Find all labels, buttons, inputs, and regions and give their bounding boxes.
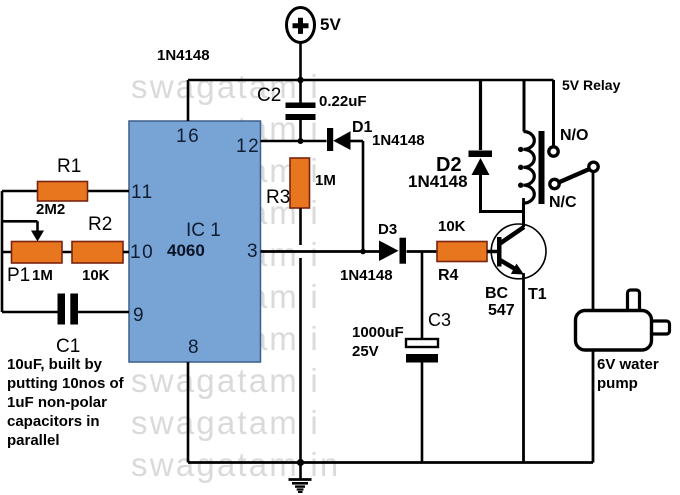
svg-text:swagatam i: swagatam i (131, 68, 320, 105)
IC pin labels (130, 126, 260, 358)
svg-text:1M: 1M (315, 172, 336, 189)
svg-text:R4: R4 (438, 267, 459, 284)
svg-text:D1: D1 (352, 119, 373, 136)
wire pin 16 (187, 80, 190, 121)
svg-text:R3: R3 (266, 187, 290, 208)
svg-text:10uF, built by: 10uF, built by (7, 356, 103, 373)
pot wiper arrow (31, 231, 44, 242)
capacitor C1 (2, 294, 129, 358)
note text block (7, 356, 125, 449)
capacitor C2 (257, 80, 367, 141)
svg-text:11: 11 (131, 182, 154, 203)
wire D1 drop to pin3 line (362, 141, 365, 252)
svg-text:9: 9 (133, 305, 145, 326)
svg-text:12: 12 (236, 136, 260, 157)
svg-text:C2: C2 (257, 85, 281, 106)
svg-text:R1: R1 (57, 156, 81, 177)
svg-text:1N4148: 1N4148 (408, 172, 468, 191)
svg-text:putting 10nos of: putting 10nos of (7, 375, 125, 392)
wire pin 8 drop (187, 362, 190, 463)
svg-text:0.22uF: 0.22uF (319, 93, 367, 110)
node supply junction (297, 77, 303, 83)
svg-text:swagatam i: swagatam i (131, 362, 320, 399)
node pin12/C2/R3 junction (298, 138, 304, 144)
svg-text:1N4148: 1N4148 (372, 132, 425, 149)
svg-text:4060: 4060 (167, 241, 205, 260)
svg-text:10K: 10K (82, 267, 110, 284)
contact N/O (549, 147, 558, 156)
svg-text:N/C: N/C (549, 194, 577, 211)
svg-text:D3: D3 (378, 221, 397, 238)
diode D3 (340, 221, 437, 284)
svg-text:R2: R2 (88, 214, 112, 235)
wire pump to rail (592, 350, 595, 463)
IC U1 body (129, 121, 261, 362)
diode D1 (327, 119, 425, 151)
svg-text:parallel: parallel (7, 432, 60, 449)
relay coil K1 (518, 80, 534, 227)
wire pin 12 (261, 140, 327, 143)
svg-text:IC 1: IC 1 (186, 220, 221, 241)
wire 5V to rail (299, 43, 302, 81)
svg-text:P1: P1 (7, 265, 30, 286)
wire top supply rail (188, 79, 554, 82)
capacitor C3 (352, 310, 451, 463)
svg-text:pump: pump (597, 375, 638, 392)
svg-text:1uF non-polar: 1uF non-polar (7, 394, 107, 411)
relay armature (559, 169, 590, 183)
svg-text:BC: BC (485, 285, 509, 302)
resistor R2 (72, 214, 129, 284)
svg-text:1N4148: 1N4148 (340, 267, 393, 284)
relay pole contact (589, 162, 598, 171)
svg-text:T1: T1 (528, 286, 547, 303)
svg-text:C3: C3 (428, 310, 451, 330)
svg-text:5V Relay: 5V Relay (562, 77, 621, 93)
svg-text:10K: 10K (438, 218, 466, 235)
wire R3 to ground rail (with crossing gap) (299, 208, 302, 463)
contact N/C (550, 179, 559, 188)
svg-text:2M2: 2M2 (36, 201, 65, 218)
wire pole to pump (592, 171, 595, 311)
ground (289, 463, 312, 493)
svg-text:547: 547 (488, 302, 515, 319)
wire base (487, 250, 497, 254)
svg-text:1000uF: 1000uF (352, 324, 404, 341)
wire pot wiper branch (2, 221, 38, 232)
svg-text:5V: 5V (320, 15, 341, 34)
svg-text:10: 10 (130, 242, 154, 263)
svg-text:6V water: 6V water (597, 356, 659, 373)
svg-text:8: 8 (188, 337, 200, 358)
supply V1 5V (287, 8, 342, 43)
svg-text:swagatam i: swagatam i (131, 404, 320, 441)
svg-text:1M: 1M (32, 267, 53, 284)
potentiometer P1 (2, 242, 72, 287)
diode D2 (408, 80, 524, 212)
svg-text:1N4148: 1N4148 (157, 47, 210, 64)
wire C3 drop (421, 252, 424, 339)
svg-text:capacitors in: capacitors in (7, 413, 100, 430)
resistor R4 (437, 218, 487, 284)
node ground junction (297, 459, 304, 466)
svg-text:swagatam in: swagatam in (131, 446, 340, 483)
wire emitter to rail (522, 273, 525, 463)
wire left rail (1, 191, 4, 312)
wire pin 3 (261, 250, 380, 253)
svg-text:16: 16 (176, 126, 200, 147)
svg-text:25V: 25V (352, 343, 379, 360)
resistor R3 (266, 158, 336, 208)
wire N/O drop (552, 80, 555, 147)
wire ground rail (188, 461, 593, 464)
svg-text:3: 3 (247, 241, 259, 262)
watermark (131, 68, 340, 483)
motor pump M1 (576, 290, 670, 392)
transistor T1 (485, 224, 547, 319)
svg-text:N/O: N/O (560, 127, 588, 144)
svg-text:C1: C1 (56, 336, 80, 357)
node D1/pin3 junction (360, 249, 366, 255)
wire collector (522, 198, 525, 227)
resistor R1 (2, 156, 129, 218)
relay core bar (539, 131, 545, 204)
